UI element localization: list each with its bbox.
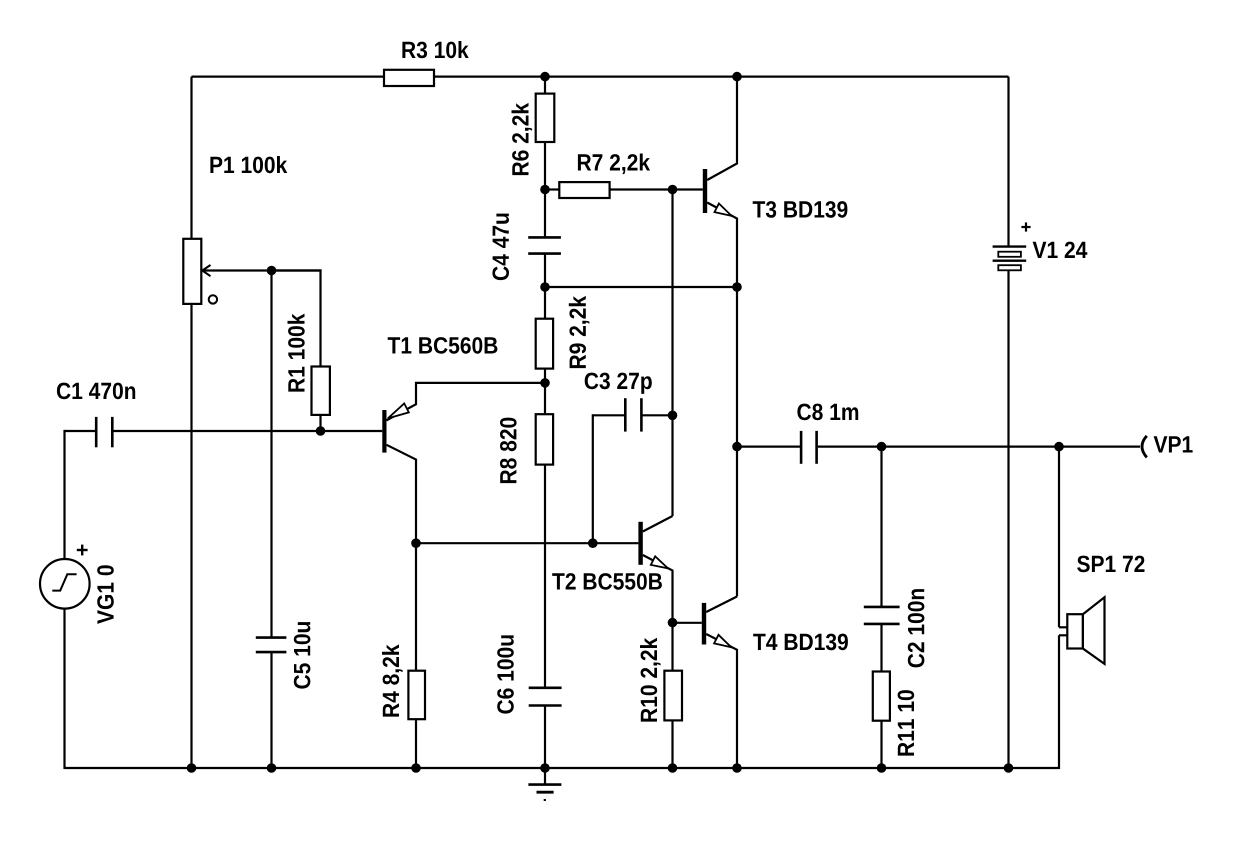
- transistor T1 base bar: [382, 410, 386, 453]
- label C6 100u: [497, 635, 514, 713]
- transistor T3 collector wire: [707, 77, 737, 180]
- label R6 2,2k: [512, 103, 533, 175]
- wire R10 bottom to rail: [671, 720, 673, 768]
- label P1 100k: [210, 156, 287, 173]
- wire y543 horizontal (T1 collector to T2 base): [416, 542, 638, 544]
- node rail / R4 junction: [411, 763, 421, 773]
- label T1 BC560B: [388, 337, 498, 354]
- node T2 emitter / T4 base junction: [668, 618, 678, 628]
- wire x416 down to R4: [415, 543, 417, 671]
- node rail / T4 emitter junction: [732, 763, 742, 773]
- label C1 470n: [57, 383, 135, 400]
- node y287 / x737 junction: [732, 282, 742, 292]
- label R4 8,2k: [382, 644, 403, 716]
- transistor T4 collector wire: [706, 597, 737, 613]
- resistor R4: [408, 671, 425, 720]
- label C4 47u: [492, 214, 509, 281]
- label C5 10u: [294, 622, 311, 689]
- node y543 / C3 branch junction: [588, 538, 598, 548]
- wire V1 bottom to rail: [1007, 270, 1009, 768]
- label VG1 0: [97, 565, 114, 624]
- wire V1 top (top rail to battery): [1007, 77, 1009, 247]
- transistor T1 emitter arrow: [388, 403, 409, 418]
- wire x672 vertical (R7 node to T2 collector): [671, 190, 673, 517]
- transistor T3 emitter wire: [707, 203, 737, 597]
- node rail / C5 junction: [267, 763, 277, 773]
- capacitor C4: [528, 236, 561, 239]
- node output / speaker junction: [1054, 442, 1064, 452]
- potentiometer P1 rotation mark (small circle): [209, 295, 217, 303]
- wire R1 bottom stub: [319, 415, 321, 431]
- node wiper junction: [267, 266, 277, 276]
- capacitor C3: [624, 398, 627, 431]
- wire C1 left: [65, 430, 96, 432]
- node T3 collector / top rail junction: [732, 72, 742, 82]
- wire C2 top branch: [880, 447, 882, 607]
- node output / C2 junction: [877, 442, 887, 452]
- wire P1 top (top rail to potentiometer): [190, 77, 192, 239]
- wire R6 top stub: [544, 77, 546, 94]
- wire wiper to R1 top corner: [319, 269, 321, 366]
- transistor T3 base bar: [703, 169, 707, 213]
- wire R9 bottom to R8 top: [544, 369, 546, 415]
- node R1 / input wire junction: [316, 426, 326, 436]
- resistor R9: [536, 319, 553, 369]
- wire R6 bottom to C4 top: [544, 142, 546, 237]
- node R6 / R7 junction: [540, 185, 550, 195]
- wire C3 left stub: [593, 414, 624, 416]
- resistor R8: [536, 414, 553, 464]
- wire C3 right stub: [642, 414, 672, 416]
- transistor T4 emitter arrow: [714, 635, 731, 647]
- wire R7 left stub: [545, 188, 559, 190]
- wire output left (to C8): [737, 446, 800, 448]
- wire P1 bottom (potentiometer to bottom rail): [190, 304, 192, 768]
- label R1 100k: [288, 314, 305, 392]
- capacitor C6: [529, 686, 562, 689]
- wire T4 base stub: [673, 622, 702, 624]
- wire C2 bottom to R11: [880, 624, 882, 672]
- wire top rail right segment (R3 to V1): [434, 75, 1009, 77]
- node rail / R10 junction: [668, 763, 678, 773]
- node rail / R11 junction: [877, 763, 887, 773]
- capacitor C2: [864, 606, 900, 609]
- generator VG1 body: [40, 559, 90, 609]
- generator VG1 waveform: [52, 574, 76, 590]
- wire input left vertical: [63, 430, 65, 559]
- wire bottom ground rail: [65, 767, 1060, 769]
- ground symbol: [544, 768, 546, 784]
- probe VP1 arc: [1142, 436, 1147, 458]
- label C2 100n: [908, 589, 925, 667]
- node T3/T4 output junction: [732, 442, 742, 452]
- label C3 27p: [585, 373, 652, 394]
- label C8 1m: [797, 404, 858, 421]
- wire speaker top branch: [1058, 447, 1060, 628]
- transistor T4 base bar: [702, 603, 706, 645]
- speaker SP1 horn: [1083, 597, 1105, 664]
- label R11 10: [898, 690, 915, 756]
- node rail / V1 junction: [1004, 763, 1014, 773]
- label R9 2,2k: [569, 296, 590, 368]
- wire speaker bottom branch: [1059, 634, 1067, 636]
- wire C1 right (to T1 base): [114, 430, 383, 432]
- wire output right (C8 to VP1): [818, 446, 1140, 448]
- label R10 2,2k: [640, 638, 661, 722]
- label T3 BD139: [753, 201, 848, 218]
- wire C5 top branch: [270, 271, 272, 638]
- transistor T3 emitter arrow: [715, 204, 732, 216]
- speaker SP1 driver: [1067, 614, 1083, 648]
- transistor T2 base bar: [638, 522, 642, 565]
- wire C3 left branch vertical: [592, 414, 594, 543]
- capacitor C8: [800, 431, 803, 464]
- node R9 / R8 / T1 emitter junction: [540, 378, 550, 388]
- wire R11 bottom to rail: [880, 721, 882, 768]
- battery V1: [993, 245, 1027, 247]
- wire R10 top stub: [671, 623, 673, 671]
- label VP1: [1154, 436, 1193, 452]
- label V1 24: [1033, 242, 1088, 258]
- node top rail / R6 junction: [540, 72, 550, 82]
- transistor T2 collector wire: [643, 516, 673, 532]
- transistor T1 collector wire: [387, 445, 417, 543]
- resistor R3: [384, 70, 434, 86]
- wire C6 bottom to rail: [544, 706, 546, 769]
- node R7 / T3 base / x672 junction: [668, 185, 678, 195]
- transistor T1 emitter wire (to R9/R8 node): [387, 383, 546, 421]
- wire C4 bottom to R9 top: [544, 254, 546, 319]
- node C3 / x672 junction: [668, 411, 678, 421]
- resistor R11: [873, 672, 890, 721]
- label SP1 72: [1077, 556, 1144, 573]
- wire top rail left segment (P1 top to R3): [192, 75, 385, 77]
- wire R7 to T3 base: [610, 188, 703, 190]
- wire R8 bottom to C6 top: [544, 465, 546, 688]
- generator VG1 plus sign: [77, 549, 88, 551]
- capacitor C5: [256, 636, 287, 639]
- resistor R10: [664, 671, 682, 721]
- resistor R7: [559, 182, 609, 198]
- potentiometer P1 body: [183, 239, 201, 304]
- transistor T4 emitter wire: [706, 634, 737, 768]
- node C4 / y287 wire junction: [540, 282, 550, 292]
- wire R4 bottom to rail: [415, 719, 417, 768]
- transistor T2 emitter wire: [643, 555, 673, 623]
- node rail / P1 junction: [187, 763, 197, 773]
- wire y287 horizontal (C4 node to T3 emitter line): [545, 286, 737, 288]
- label T2 BC550B: [552, 573, 662, 590]
- resistor R1: [312, 367, 330, 415]
- wire VG1 bottom to rail: [63, 609, 65, 769]
- potentiometer P1 wiper arrow: [202, 269, 320, 271]
- label R3 10k: [402, 41, 468, 58]
- label R7 2,2k: [578, 154, 650, 175]
- node T1 collector / y543 junction: [411, 538, 421, 548]
- resistor R6: [536, 94, 555, 142]
- battery V1 plus sign: [1021, 226, 1030, 228]
- transistor T2 emitter arrow: [651, 556, 668, 568]
- label R8 820: [500, 418, 517, 484]
- label T4 BD139: [753, 634, 848, 651]
- capacitor C1: [95, 417, 98, 447]
- wire C5 bottom branch: [270, 652, 272, 768]
- node C6 / ground junction: [540, 763, 550, 773]
